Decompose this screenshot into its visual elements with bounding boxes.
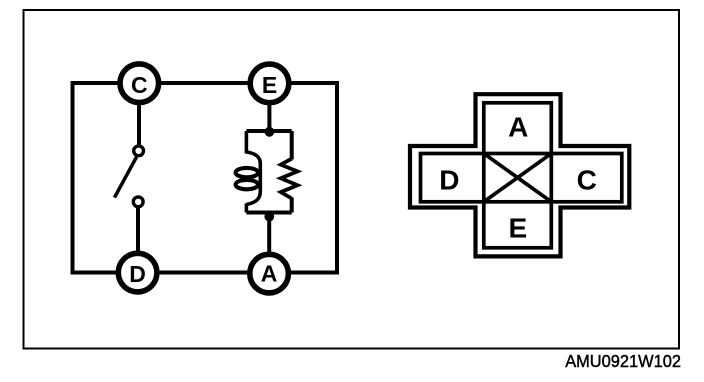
svg-text:A: A <box>261 260 278 286</box>
svg-text:C: C <box>131 72 148 98</box>
svg-text:D: D <box>129 261 146 287</box>
svg-text:D: D <box>439 164 459 195</box>
svg-text:A: A <box>508 112 528 143</box>
svg-text:C: C <box>577 165 597 196</box>
svg-text:AMU0921W102: AMU0921W102 <box>565 351 681 371</box>
svg-text:E: E <box>262 72 277 98</box>
svg-text:E: E <box>509 212 528 243</box>
